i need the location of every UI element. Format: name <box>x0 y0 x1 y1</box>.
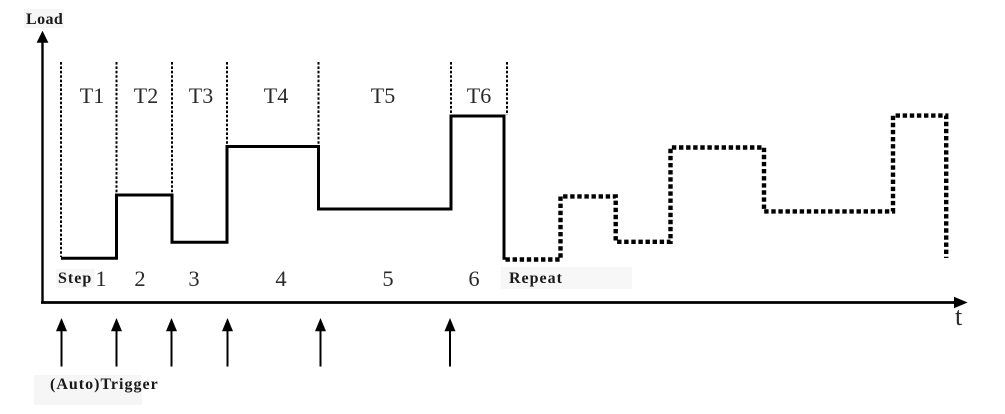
trigger arrow 5 <box>315 318 326 367</box>
T5/T6 boundary dotted line <box>450 62 452 115</box>
x-axis <box>41 297 968 308</box>
label T5 <box>371 85 395 107</box>
T4/T5 boundary dotted line <box>318 62 320 208</box>
label T6 <box>467 85 491 107</box>
y-axis <box>37 31 49 303</box>
dashed repeat waveform <box>506 116 947 260</box>
T1/T2 boundary dotted line <box>116 62 118 194</box>
step number 4 <box>275 268 286 291</box>
solid step waveform (steps 1-6) <box>61 116 504 260</box>
label t (x-axis title) <box>955 304 962 330</box>
label Repeat background strip <box>501 267 632 289</box>
T3/T4 boundary dotted line <box>226 62 228 146</box>
label T4 <box>263 85 287 107</box>
step number 3 <box>188 268 199 291</box>
trigger arrow 2 <box>111 318 122 367</box>
T1 left boundary dotted line <box>60 62 62 257</box>
label Step <box>56 269 94 288</box>
label (Auto)Trigger <box>50 377 159 393</box>
label T2 <box>134 85 158 107</box>
step number 1 <box>95 268 106 291</box>
trigger arrow 1 <box>56 318 67 367</box>
trigger arrow 4 <box>222 318 233 367</box>
label (Auto)Trigger background strip <box>34 375 142 405</box>
step number 6 <box>468 268 479 291</box>
label T3 <box>189 85 213 107</box>
label Repeat <box>509 271 563 287</box>
step number 2 <box>134 268 145 291</box>
T2/T3 boundary dotted line <box>171 62 173 194</box>
label Load (y-axis title) <box>24 9 64 28</box>
trigger arrow 3 <box>166 318 177 367</box>
T6 right boundary dotted line <box>506 62 508 115</box>
label T1 <box>79 85 103 107</box>
step number 5 <box>382 268 393 291</box>
trigger arrow 6 <box>445 318 456 367</box>
